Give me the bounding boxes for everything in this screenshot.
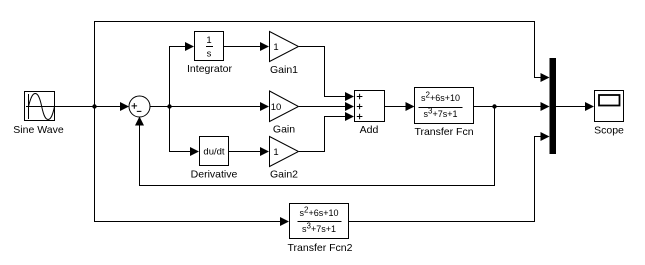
svg-text:Scope: Scope — [594, 125, 624, 137]
svg-text:1: 1 — [273, 42, 278, 53]
svg-text:Transfer Fcn2: Transfer Fcn2 — [288, 242, 353, 254]
svg-text:Transfer Fcn: Transfer Fcn — [414, 126, 473, 138]
svg-text:Gain2: Gain2 — [270, 169, 298, 181]
svg-text:1: 1 — [206, 35, 211, 46]
svg-text:Gain: Gain — [273, 124, 295, 136]
svg-text:Add: Add — [360, 124, 379, 136]
svg-text:Sine Wave: Sine Wave — [13, 124, 64, 136]
svg-text:10: 10 — [271, 102, 282, 113]
svg-text:Derivative: Derivative — [191, 169, 238, 181]
svg-text:Gain1: Gain1 — [270, 64, 298, 76]
svg-text:1: 1 — [273, 147, 278, 158]
svg-text:du/dt: du/dt — [203, 147, 224, 158]
svg-text:Integrator: Integrator — [187, 63, 232, 75]
svg-text:s: s — [207, 49, 212, 60]
